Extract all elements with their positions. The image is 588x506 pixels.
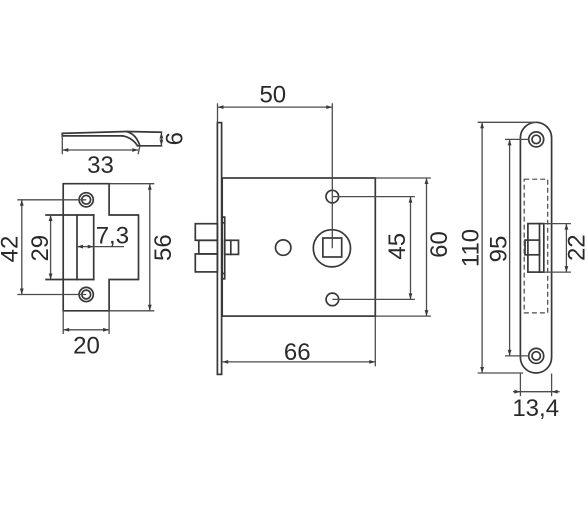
dim 56 [109, 183, 154, 185]
latch bolt blocks [195, 224, 217, 241]
svg-text:60: 60 [426, 231, 453, 258]
svg-text:13,4: 13,4 [512, 395, 559, 422]
dim 45 [332, 196, 415, 198]
dim 6 arrows [160, 133, 164, 139]
latch cutout [46, 214, 94, 216]
dim 22 arrows [565, 224, 569, 230]
dim 20 arrows [63, 328, 69, 332]
svg-text:66: 66 [284, 339, 311, 366]
svg-text:20: 20 [73, 333, 100, 360]
dim 33 arrows [62, 148, 68, 152]
dim 13,4 arrows (outside) [514, 390, 520, 394]
dim 42 arrows [20, 200, 24, 206]
dim 66 arrows [222, 360, 228, 364]
svg-text:7,3: 7,3 [96, 223, 129, 250]
svg-text:50: 50 [259, 81, 286, 108]
guide pin circle [276, 240, 291, 255]
dim 110 arrows [480, 122, 484, 128]
dim 66 [374, 316, 376, 366]
dim 60 [375, 177, 431, 179]
dim 95 arrows [508, 139, 512, 145]
spindle circle [313, 230, 350, 267]
spindle square [323, 238, 342, 257]
top view: strike plate lip profile [62, 132, 161, 134]
bottom fixing circle [326, 293, 339, 306]
dim 33 [61, 136, 63, 154]
svg-text:110: 110 [458, 229, 485, 267]
screw hole bottom [79, 287, 93, 301]
svg-text:22: 22 [564, 234, 588, 261]
svg-text:6: 6 [162, 132, 189, 145]
svg-text:95: 95 [486, 236, 513, 263]
dim 56 arrows [148, 184, 152, 190]
dim 50 [217, 103, 219, 122]
dim 20 [62, 311, 64, 334]
dim 42 [17, 199, 86, 201]
dim 60 arrows [425, 178, 429, 184]
middle view: backplate strip [222, 217, 225, 279]
dim 29 arrows [49, 215, 53, 221]
dim 13,4 [519, 374, 521, 397]
svg-text:45: 45 [384, 233, 411, 260]
dim 7,3 arrows [77, 245, 83, 249]
screw hole top [79, 193, 93, 207]
right view: faceplate stadium [520, 122, 551, 373]
dim 45 arrows [409, 197, 413, 203]
dim 50 arrows [218, 105, 224, 109]
dim 6 line [160, 132, 162, 146]
latch tail [225, 240, 239, 254]
dim 7,3 [77, 246, 124, 248]
middle view: lock case [222, 178, 375, 316]
svg-text:33: 33 [87, 152, 114, 179]
svg-text:29: 29 [27, 235, 54, 262]
svg-text:56: 56 [150, 234, 177, 261]
top fixing circle [326, 190, 339, 203]
right view latch [528, 224, 544, 273]
hidden case outline (dashed) [524, 179, 548, 313]
strike plate front view outline [63, 184, 138, 311]
dim 29 [50, 215, 52, 280]
dim 22 [544, 223, 571, 225]
dim 110 [478, 121, 537, 123]
middle view: faceplate [217, 123, 221, 375]
svg-text:42: 42 [0, 236, 24, 263]
right view screws [529, 132, 544, 147]
dim 95 [505, 138, 529, 140]
